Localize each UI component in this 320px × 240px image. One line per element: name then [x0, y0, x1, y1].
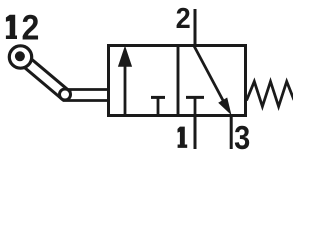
lever [17, 53, 71, 101]
port 3 line [230, 117, 233, 149]
flow path 2 to 3 (right square) [194, 46, 232, 116]
lever pivot [60, 89, 71, 100]
blocked port T1 (left square) [151, 97, 165, 115]
plunger [63, 90, 109, 101]
svg-text:2: 2 [21, 9, 39, 47]
blocked port T2 (right square) [186, 97, 204, 115]
signal label 12 [6, 15, 17, 39]
port 2 line [194, 9, 197, 44]
flow arrow 1 to 2 (left square) [118, 46, 132, 116]
port 1 line [194, 117, 197, 149]
port label 1 [178, 127, 188, 148]
roller [9, 46, 31, 68]
return spring [247, 82, 295, 107]
valve body [109, 46, 246, 116]
position divider [177, 46, 180, 116]
svg-text:3: 3 [234, 119, 250, 156]
svg-text:2: 2 [176, 2, 191, 34]
